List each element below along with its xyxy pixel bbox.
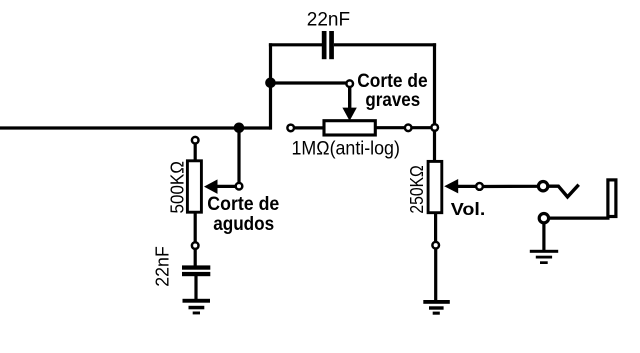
- terminal: P2 right lug: [405, 125, 412, 132]
- wire: P1 top lead: [194, 144, 197, 163]
- svg-text:250KΩ: 250KΩ: [407, 165, 427, 213]
- ground GND3: [530, 250, 558, 264]
- wire: top wire right of C1: [334, 43, 436, 46]
- svg-text:Vol.: Vol.: [451, 199, 486, 219]
- wire: wiper lug to jack tip lug: [483, 185, 538, 188]
- wire: main input line: [0, 126, 271, 129]
- arrowhead: graves wiper: [342, 108, 356, 121]
- junction: input line node: [234, 123, 245, 134]
- terminal: P1 top lug: [192, 137, 199, 144]
- jack J1 body: [608, 180, 616, 217]
- terminal: lug on right drop: [431, 124, 438, 131]
- wire: P2 left lead: [294, 126, 326, 129]
- wire: C2 to ground: [194, 276, 197, 300]
- wire: riser from input line to top wire: [269, 43, 272, 129]
- svg-text:1MΩ(anti-log): 1MΩ(anti-log): [292, 139, 400, 160]
- wire: P1 bottom lead: [194, 211, 197, 242]
- wire: lug to C2: [194, 249, 197, 266]
- wire: jack tip spring contact: [548, 185, 579, 197]
- terminal: P3 bottom lug: [432, 242, 439, 249]
- svg-text:500KΩ: 500KΩ: [168, 161, 188, 214]
- capacitor C2 22nF (bottom): [182, 265, 210, 276]
- terminal: P2 left lug: [287, 125, 294, 132]
- wire: volume wiper lead: [456, 185, 477, 188]
- arrowhead: volume wiper: [444, 179, 458, 193]
- label Corte de agudos: [207, 193, 279, 235]
- terminal: graves wiper lug: [346, 80, 353, 87]
- wire: branch to graves wiper: [271, 81, 347, 84]
- ground GND1: [183, 299, 211, 315]
- wire: agudos wiper arrow stem: [216, 185, 236, 188]
- wire: P3 bottom lead: [434, 212, 437, 242]
- terminal: agudos wiper lug: [236, 183, 243, 190]
- arrowhead: agudos wiper: [204, 179, 218, 194]
- terminal: jack sleeve lug: [539, 214, 548, 223]
- potentiometer P1 500K body: [187, 161, 201, 212]
- wire: sleeve lug to jack body: [549, 217, 610, 220]
- ground GND2: [423, 300, 450, 315]
- wire: lug to ground: [434, 249, 437, 300]
- terminal: volume wiper lug: [476, 183, 483, 190]
- wire: P2 right lead: [376, 126, 431, 129]
- svg-text:Corte de: Corte de: [207, 193, 279, 215]
- svg-text:22nF: 22nF: [153, 246, 173, 287]
- potentiometer P2 1M body: [324, 121, 375, 135]
- svg-text:22nF: 22nF: [307, 9, 350, 30]
- wire: top wire left of C1: [269, 43, 322, 46]
- potentiometer P3 250K body: [428, 161, 442, 212]
- wire: graves wiper arrow stem: [348, 87, 351, 111]
- wire: drop from input node to agudos wiper lug: [237, 128, 240, 184]
- junction: top branch node: [265, 78, 276, 89]
- wire: right drop from top wire to pot P3: [433, 43, 436, 162]
- terminal: P1 bottom lug: [192, 242, 199, 249]
- capacitor C1 22nF (top): [322, 31, 334, 59]
- svg-text:agudos: agudos: [213, 213, 274, 235]
- wire: sleeve lug to ground: [542, 223, 545, 251]
- svg-text:graves: graves: [365, 89, 420, 111]
- label Corte de graves: [357, 70, 427, 111]
- terminal: jack tip lug: [538, 182, 547, 191]
